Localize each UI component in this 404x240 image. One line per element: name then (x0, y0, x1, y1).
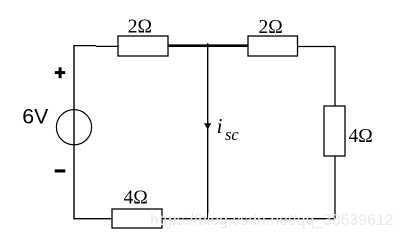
arrowhead: i_sc current direction (204, 123, 211, 130)
svg-text:6V: 6V (22, 105, 49, 129)
svg-text:i: i (217, 114, 223, 138)
wire: thick node segment between R1 and R2 (node a) (168, 44, 248, 47)
polarity minus sign (55, 169, 66, 172)
resistor R4 4Ω (bottom) box (112, 209, 162, 228)
wire: middle short-circuit branch (207, 43, 209, 219)
svg-text:4Ω: 4Ω (349, 126, 373, 147)
wire: left vertical branch (73, 45, 75, 219)
polarity plus sign (55, 67, 65, 78)
resistor R3 4Ω (right vertical) box (324, 106, 345, 156)
wire: from R2 to top-right corner (298, 47, 336, 107)
svg-text:https://blog.csdn.net/qq_38639: https://blog.csdn.net/qq_38639612 (150, 212, 393, 229)
svg-text:2Ω: 2Ω (128, 17, 152, 38)
resistor R1 2Ω (top-left) box (118, 36, 168, 56)
voltage source V1 6V circle (56, 110, 91, 145)
wire: right branch lower segment (334, 156, 336, 219)
wire: bottom return (73, 218, 335, 220)
label: i_sc current (217, 114, 240, 144)
svg-text:2Ω: 2Ω (259, 17, 283, 38)
wire: top-left horizontal from left branch to R1 (73, 45, 118, 48)
svg-text:sc: sc (225, 125, 239, 144)
resistor R2 2Ω (top-right) box (248, 36, 298, 56)
svg-text:4Ω: 4Ω (124, 188, 148, 209)
